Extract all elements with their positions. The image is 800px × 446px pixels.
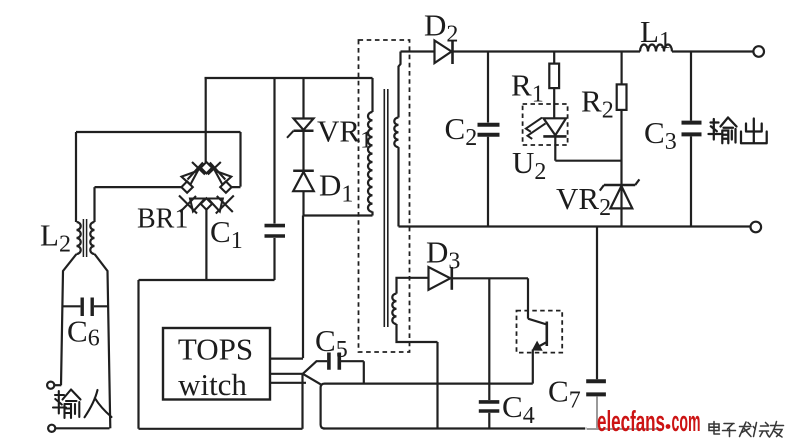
transformer bias winding <box>392 294 396 324</box>
capacitor C7 <box>586 381 606 394</box>
svg-text:C6: C6 <box>67 314 100 352</box>
wire L2 left bottom to rail <box>61 254 77 385</box>
wire secondary top lead <box>399 52 401 118</box>
svg-text:witch: witch <box>178 367 247 402</box>
svg-text:U2: U2 <box>512 145 546 185</box>
wire input bottom lead <box>55 427 109 429</box>
wire R1 to LED <box>553 88 555 118</box>
svg-text:C5: C5 <box>315 323 348 363</box>
svg-text:C7: C7 <box>548 374 581 414</box>
wire primary positive rail <box>205 77 373 79</box>
svg-text:elecfans: elecfans <box>597 406 665 438</box>
node output terminal bottom <box>751 222 762 233</box>
resistor R2 <box>617 84 627 110</box>
transformer secondary winding <box>394 118 398 148</box>
inductor L1 <box>640 45 672 52</box>
zener VR2 <box>600 179 640 208</box>
wire C1 branch upper <box>273 78 275 224</box>
wire C3 branch lower <box>690 136 692 226</box>
wire drain vertical <box>302 216 304 359</box>
wire C2 branch lower <box>487 137 489 227</box>
wire source down to left ground <box>301 374 303 429</box>
wire C2 branch upper <box>487 52 489 123</box>
IC TOPSwitch box <box>163 328 270 400</box>
wire bias winding bottom lead <box>397 324 438 429</box>
inductor L2 left winding <box>77 222 81 254</box>
wire AC upper path to L2 left <box>76 131 241 133</box>
watermark white backdrop <box>585 398 800 438</box>
wire bottom output rail <box>399 225 751 227</box>
zener VR1 <box>287 119 314 138</box>
transformer core <box>384 89 388 327</box>
svg-text:C3: C3 <box>644 115 677 155</box>
svg-text:L1: L1 <box>640 14 671 54</box>
svg-text:C2: C2 <box>445 111 478 151</box>
transformer primary winding <box>368 112 373 212</box>
wire emitter rail <box>321 384 533 429</box>
wire D3 to transistor collector <box>452 277 528 279</box>
capacitor C6 with leads <box>63 298 109 317</box>
bridge rectifier BR1 <box>179 162 234 214</box>
node input terminal bottom <box>48 425 55 432</box>
wire ground rail right <box>323 427 587 429</box>
wire R1 branch top <box>553 52 555 64</box>
wire input top lead <box>54 384 61 386</box>
node output terminal top <box>753 46 764 57</box>
optocoupler U2 LED <box>526 118 567 139</box>
svg-text:L2: L2 <box>40 218 71 258</box>
wire clamp branch top <box>302 78 304 119</box>
wire left ground loop <box>139 280 303 429</box>
capacitor C5 with leads <box>303 353 364 384</box>
capacitor C1 <box>265 226 286 236</box>
wire LED bottom horizontal <box>555 160 621 162</box>
wire L2 right bottom to rail <box>95 254 111 428</box>
diode D3 <box>429 267 452 290</box>
wire clamp to primary bottom <box>304 212 373 216</box>
svg-text:R1: R1 <box>511 68 544 108</box>
wire C3 branch upper <box>690 52 692 121</box>
wire LED cathode down <box>554 136 556 160</box>
capacitor C2 <box>478 125 500 135</box>
svg-text:VR1: VR1 <box>317 114 372 154</box>
svg-text:TOPS: TOPS <box>178 332 253 367</box>
wire BR1 west lead <box>95 187 182 222</box>
capacitor C4 <box>479 402 500 411</box>
wire C7 stub lower (faded under watermark) <box>596 396 598 428</box>
U2 dashed box (LED side) <box>523 104 568 145</box>
wire source diagonal to emitter rail <box>303 374 321 385</box>
label 输出 (output) <box>709 118 767 144</box>
wire BR1 bottom lead <box>205 210 207 280</box>
diode D2 <box>435 40 453 64</box>
svg-text:C1: C1 <box>210 214 243 254</box>
wire D1 down <box>302 191 304 215</box>
wire C4 branch upper <box>488 278 490 400</box>
svg-text:D2: D2 <box>424 8 458 48</box>
wire secondary bottom lead <box>397 147 399 226</box>
inductor L2 right winding <box>90 222 94 254</box>
wire C7 branch upper <box>596 227 598 380</box>
svg-text:com: com <box>672 406 701 438</box>
svg-text:BR1: BR1 <box>137 204 188 235</box>
wire C4 branch lower <box>488 413 490 429</box>
diode D1 <box>293 171 314 191</box>
capacitor C3 <box>682 123 702 135</box>
wire L2 left top lead <box>75 132 77 222</box>
wire BR1 top lead <box>205 78 207 162</box>
wire primary top lead <box>371 78 373 112</box>
L2 core <box>83 219 86 257</box>
resistor R1 <box>549 64 559 89</box>
wire R2 to junction <box>620 110 622 227</box>
node input terminal top <box>47 382 54 389</box>
svg-text:D1: D1 <box>319 168 353 208</box>
watermark 电子发烧友 <box>709 422 784 438</box>
wire TOPSwitch control pin <box>271 373 303 375</box>
svg-text:C4: C4 <box>502 389 535 429</box>
wire BR1 east lead <box>232 132 241 187</box>
label 输入 (input) <box>53 390 112 419</box>
transformer T1 dashed box <box>359 40 410 352</box>
wire ground rail faded under watermark <box>587 428 661 430</box>
wire VR1 to D1 <box>302 131 304 171</box>
U2 dashed box (transistor side) <box>517 311 563 353</box>
svg-text:D3: D3 <box>426 235 460 275</box>
wire C1 branch lower <box>273 238 275 280</box>
wire top output rail <box>401 50 754 52</box>
optocoupler U2 phototransistor <box>528 278 547 383</box>
wire TOPSwitch source pin <box>271 382 307 384</box>
svg-text:R2: R2 <box>581 84 614 124</box>
wire bias winding top lead <box>397 278 429 294</box>
wire drain pin <box>271 358 304 360</box>
wire R2 branch top <box>620 52 622 85</box>
